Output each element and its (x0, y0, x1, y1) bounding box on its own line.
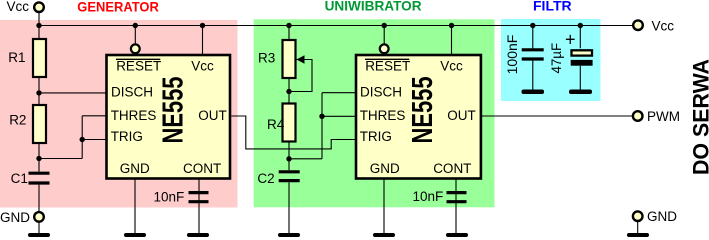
node wiper junction (286, 89, 291, 94)
ground bar C2 (278, 233, 300, 237)
node RESET rail junction U1 (133, 23, 138, 28)
svg-text:R1: R1 (8, 50, 25, 65)
ground bar 47uF (569, 90, 592, 95)
svg-text:FILTR: FILTR (533, 0, 572, 14)
svg-text:GND: GND (0, 210, 30, 225)
svg-text:OUT: OUT (447, 108, 476, 123)
svg-text:GENERATOR: GENERATOR (77, 0, 159, 14)
wire GND pin U2 to ground (383, 178, 385, 234)
wire junction to THRES/DISCH link U2 (289, 158, 322, 160)
wire DISCH U2 (322, 92, 355, 94)
wiper wire R3 (289, 60, 312, 92)
svg-text:R2: R2 (9, 113, 26, 128)
wire R4 to C2 (288, 143, 290, 171)
generator section background (0, 20, 238, 208)
svg-text:THRES: THRES (111, 108, 157, 123)
node left Vcc rail junction (36, 23, 41, 28)
node R4/C2 junction (286, 156, 291, 161)
wire DISCH/THRES vertical link U2 (321, 93, 323, 159)
ground bar 100nF (522, 90, 545, 95)
svg-text:GND: GND (120, 161, 150, 176)
svg-text:Vcc: Vcc (191, 59, 214, 74)
op-amp U2 NE555 box (356, 55, 481, 179)
node TRIG junction (80, 137, 85, 142)
ground bar CONT U1 (187, 233, 209, 237)
resistor R4 (283, 104, 296, 142)
svg-text:100nF: 100nF (504, 35, 520, 75)
wire DISCH U1 (39, 92, 106, 94)
svg-text:PWM: PWM (647, 109, 680, 124)
svg-text:Vcc: Vcc (7, 0, 30, 14)
resistor R3 (potentiometer) (283, 40, 296, 78)
wire rail to R3 (288, 26, 290, 40)
ground bar left (28, 233, 50, 237)
pin label RESET U1 (116, 59, 161, 74)
svg-text:NE555: NE555 (157, 77, 189, 144)
wire Vcc rail (39, 25, 633, 27)
wire C1 to GND terminal (38, 185, 40, 212)
svg-text:CONT: CONT (433, 161, 471, 176)
wire 100nF to ground (532, 61, 534, 91)
svg-text:OUT: OUT (198, 108, 227, 123)
capacitor 10nF U1 (189, 193, 209, 202)
wire THRES/TRIG vertical link (81, 116, 83, 159)
capacitor 47uF positive plate (572, 50, 593, 55)
wire junction to THRES/TRIG link (39, 158, 82, 160)
wire GND pin U1 to ground (134, 178, 136, 234)
wire 47uF to rail (579, 26, 581, 49)
svg-text:RESET: RESET (116, 59, 161, 74)
wire OUT U1 to TRIG U2 (232, 116, 356, 149)
node RESET rail junction U2 (382, 23, 387, 28)
wiper arrow R3 (297, 55, 305, 63)
svg-text:Vcc: Vcc (652, 18, 675, 33)
wire Vcc pin U2 (451, 26, 453, 55)
svg-text:DO SERWA: DO SERWA (689, 59, 709, 175)
wire THRES U2 (322, 115, 355, 117)
Vcc terminal right (633, 20, 643, 30)
wire R3 to R4 (288, 79, 290, 103)
svg-text:R3: R3 (258, 50, 275, 65)
Vcc terminal left (34, 2, 44, 12)
svg-text:CONT: CONT (183, 161, 221, 176)
capacitor C1 (29, 173, 50, 183)
node R1/R2 junction (36, 90, 41, 95)
op-amp U1 NE555 box (107, 55, 231, 179)
svg-text:C2: C2 (257, 171, 274, 186)
GND terminal left (34, 212, 44, 222)
wire GND terminal to ground (38, 222, 40, 234)
svg-text:Vcc: Vcc (440, 59, 463, 74)
wire GND right to ground (637, 222, 639, 234)
ground bar U2 (373, 233, 395, 237)
wire THRES U1 (82, 115, 106, 117)
pin label RESET U2 (365, 59, 410, 74)
wire R2 to C1 (38, 144, 40, 172)
wire R1 to R2 (38, 78, 40, 104)
wire rail to R1 (38, 26, 40, 39)
svg-text:GND: GND (370, 161, 400, 176)
svg-text:UNIWIBRATOR: UNIWIBRATOR (325, 0, 422, 13)
capacitor 10nF U2 (447, 193, 467, 202)
capacitor 100nF (522, 50, 544, 59)
PWM terminal (633, 111, 643, 121)
wire Vcc terminal drop (38, 12, 40, 26)
svg-text:GND: GND (647, 209, 677, 224)
svg-text:THRES: THRES (360, 108, 406, 123)
node 47uF rail junction (578, 23, 583, 28)
resistor R1 (33, 39, 46, 77)
wire CONT U1 to ground (198, 178, 200, 234)
svg-text:47µF: 47µF (548, 43, 564, 73)
pin RESET circle U2 (380, 44, 389, 53)
svg-text:+: + (565, 30, 576, 50)
wire RESET U1 (134, 26, 136, 45)
svg-text:TRIG: TRIG (360, 129, 392, 144)
svg-text:10nF: 10nF (413, 189, 444, 204)
svg-text:DISCH: DISCH (111, 84, 153, 99)
node THRES junction U2 (319, 114, 324, 119)
wire RESET U2 (383, 26, 385, 45)
wire 47uF to ground (579, 66, 581, 90)
wire 100nF to rail (532, 26, 534, 49)
svg-text:RESET: RESET (365, 59, 410, 74)
uniwibrator section background (254, 19, 495, 207)
node Vcc rail junction U2 (449, 23, 454, 28)
wire C2 to ground (288, 182, 290, 233)
pin RESET circle U1 (131, 44, 140, 53)
filtr section background (501, 19, 601, 101)
node R2/C1 junction (36, 156, 41, 161)
node R3 rail junction (286, 23, 291, 28)
ground bar CONT U2 (446, 233, 468, 237)
wire CONT U2 to ground (455, 178, 457, 234)
svg-text:TRIG: TRIG (111, 129, 143, 144)
svg-text:NE555: NE555 (407, 77, 439, 144)
ground bar U1 (124, 233, 146, 237)
wire TRIG U1 (82, 139, 106, 141)
wire Vcc pin U1 (202, 26, 204, 55)
capacitor C2 (279, 172, 300, 181)
node 100nF rail junction (530, 23, 535, 28)
svg-text:R4: R4 (267, 117, 285, 132)
capacitor 47uF negative plate (571, 60, 593, 66)
node Vcc rail junction U1 (200, 23, 205, 28)
svg-text:C1: C1 (11, 171, 28, 186)
svg-text:10nF: 10nF (154, 190, 185, 205)
wire OUT U2 to PWM terminal (481, 115, 633, 117)
GND terminal right (633, 211, 643, 221)
ground bar right (627, 233, 649, 237)
svg-text:DISCH: DISCH (360, 84, 402, 99)
resistor R2 (33, 105, 46, 143)
